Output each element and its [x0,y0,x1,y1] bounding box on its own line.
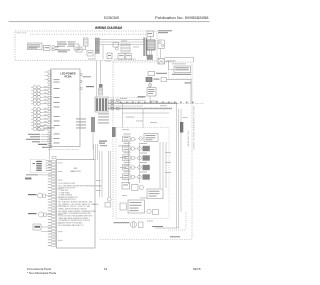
freezer fan motor [123,152,137,160]
wire [155,227,179,229]
compressor dashed outline [169,62,193,79]
wire label [136,120,143,123]
AC input connector block [95,97,108,112]
condenser fan motor cluster [123,162,137,170]
freezer thermistor [137,162,150,170]
connector 4T8 door [87,51,93,57]
wire label [165,161,171,164]
wire [149,82,151,89]
freezer door connector [82,38,88,50]
svg-text:4T8 CONN REAR: 4T8 CONN REAR [186,131,189,148]
optional ice and water label [114,58,137,61]
connector 4T5 [147,55,153,60]
dispenser control [31,160,52,173]
fresh food light [105,197,111,207]
wire [99,39,143,41]
door switch label [25,174,52,179]
header rule [9,21,210,23]
wire label [118,145,124,148]
svg-text:FRZ DOOR: FRZ DOOR [17,33,28,35]
dispenser switch [113,43,119,51]
line filter [99,84,103,95]
svg-text:19: 19 [104,267,108,271]
main board pin header [48,156,63,246]
cabinet dashed boundary bottom [100,239,192,241]
wire label row [30,33,150,35]
wire [99,41,143,43]
svg-text:* Non Illustrated Parts: * Non Illustrated Parts [27,271,57,275]
board input bundle [94,144,98,160]
ice maker water valve coil [120,203,126,210]
cabinet LED lamps [31,86,48,131]
wire label [150,121,157,124]
wire label [150,100,158,103]
svg-text:MAIN PCB: MAIN PCB [70,170,81,173]
freezer compartment rotated label [192,106,195,151]
neutral riser [178,109,180,228]
water line label [152,226,163,227]
wire [102,45,104,60]
see note labels [76,119,86,129]
svg-text:3 COMP COMMON: 3 COMP COMMON [59,195,73,197]
compressor terminal block [146,78,167,82]
model number header [104,16,120,20]
freezer light cluster [132,185,144,191]
footer date [193,267,201,271]
svg-text:FREEZER COMPARTMENT REAR OF C: FREEZER COMPARTMENT REAR OF CABINET [192,106,195,151]
wire drop [122,103,124,127]
door alarm switch [38,127,55,131]
supply riser [176,103,178,228]
dispenser interface board [28,43,43,50]
inline connector [111,99,119,110]
wire [96,61,98,98]
publication number header [155,16,209,20]
AC line N [108,108,172,109]
board output risers [99,141,110,198]
cabinet dashed boundary left [112,62,114,219]
wire [167,80,192,104]
wire label [126,116,134,119]
wire [123,112,170,114]
footer functional parts note [27,267,57,275]
compressor start winding [147,88,156,97]
mullion dashed line [48,149,79,151]
title WIRING DIAGRAM [95,26,122,30]
footer page number [104,267,108,271]
dispenser harness labels [26,134,48,143]
connector 4T3 [52,46,59,51]
water valve [28,193,52,198]
svg-text:Publication No. 5995582858: Publication No. 5995582858 [155,16,209,20]
wire [149,96,151,103]
connector labels [98,114,109,124]
run capacitor [148,72,167,76]
AC wire 4 [108,105,143,107]
connector 4T8 vertical [180,122,183,133]
ice maker [138,134,158,142]
svg-text:DISCONNECT POWER BEFORE SERVIC: DISCONNECT POWER BEFORE SERVICING [59,213,92,215]
svg-text:WIRING DIAGRAM: WIRING DIAGRAM [95,26,122,30]
top pin stub wires [45,72,49,79]
start relay [158,59,176,65]
wire [92,132,94,150]
display board [147,31,154,37]
cabinet dashed boundary top [113,61,192,63]
wire label [165,171,171,174]
wire riser group [160,142,166,188]
water line 4S label [170,236,180,237]
display label [158,30,172,33]
ice chute heater [118,54,132,60]
AC line dashed bus [118,102,204,104]
LED board pin labels [54,79,60,143]
wire [165,58,194,63]
wire [151,37,161,59]
dual ice maker valve [128,200,145,213]
wire label [122,194,127,197]
cabinet dashed boundary right [191,62,193,240]
wire label [160,104,167,107]
wire label [183,116,188,119]
wire [100,61,102,84]
wire label [105,60,111,63]
wire [99,44,143,46]
wire color legend [59,183,103,227]
wire label [88,58,95,61]
dashed wire [116,117,169,119]
LED board output nubs [80,74,82,90]
evaporator thermistor [137,153,150,161]
AC wire labeled [108,96,146,97]
defrost thermostat [137,143,150,151]
freezer compartment dashed box [116,128,169,219]
wire label [96,179,101,182]
wire [165,61,175,69]
wire drop [142,109,144,129]
AC wire 3 [108,99,146,101]
fresh food thermistor [137,172,150,180]
harness connector [91,117,95,132]
wire label [120,176,126,179]
door harness connector stack [95,38,99,53]
connector 4T8 label [83,76,95,87]
main control board 4S5 [57,160,96,249]
cube ice solenoid [33,224,52,232]
damper motor [123,134,137,142]
svg-text:OPTIONAL ICE & WATER: OPTIONAL ICE & WATER [114,58,137,61]
fill tube heater label [114,222,130,223]
display connector block [147,40,155,50]
defrost heater [122,183,130,190]
chute door heater [76,47,82,52]
wire label [121,40,127,43]
wire [139,143,141,184]
wire [128,142,130,184]
wire [49,135,51,160]
freezer door connector 4T2 [143,38,147,57]
svg-text:PCBA: PCBA [64,76,71,79]
water tube solenoid [147,209,159,214]
fill tube heater [131,222,144,228]
AC line L1 [108,102,178,103]
wire [150,50,152,55]
wire label [165,151,171,154]
svg-text:09/15: 09/15 [193,267,201,271]
wire label [120,97,127,100]
auger motor [28,212,52,217]
dispenser motor [44,45,51,50]
svg-text:FOLLOWING NOTES: FOLLOWING NOTES [59,183,76,185]
door switch assembly [158,40,165,49]
dispenser solenoid [107,53,112,59]
wire label [120,156,126,159]
dispenser switch block [57,42,79,53]
fresh food fan [123,171,137,179]
compressor inverter box [172,63,191,74]
damper labels [122,128,129,131]
wire label [147,220,153,223]
ground riser [180,109,182,212]
defrost heater 115V box [147,189,163,199]
svg-text:EI23BC56IS: EI23BC56IS [104,16,120,20]
wire label [133,46,139,49]
connector 4S2 [112,127,116,137]
dashed return [168,212,186,230]
overload protector [149,84,152,87]
rear cabinet rotated label [186,131,189,148]
wire label [120,166,126,169]
paddle switch [121,44,130,52]
svg-text:1 COMP RUN: 1 COMP RUN [59,190,69,192]
LED power PCBA box [51,69,81,147]
wire label [140,197,147,200]
dispenser connector label [38,144,52,148]
wire label [96,189,101,192]
freezer door dashed enclosure [15,31,157,61]
wire [94,53,96,60]
evaporator fan motor [123,143,137,151]
LED board pin header [48,71,52,146]
